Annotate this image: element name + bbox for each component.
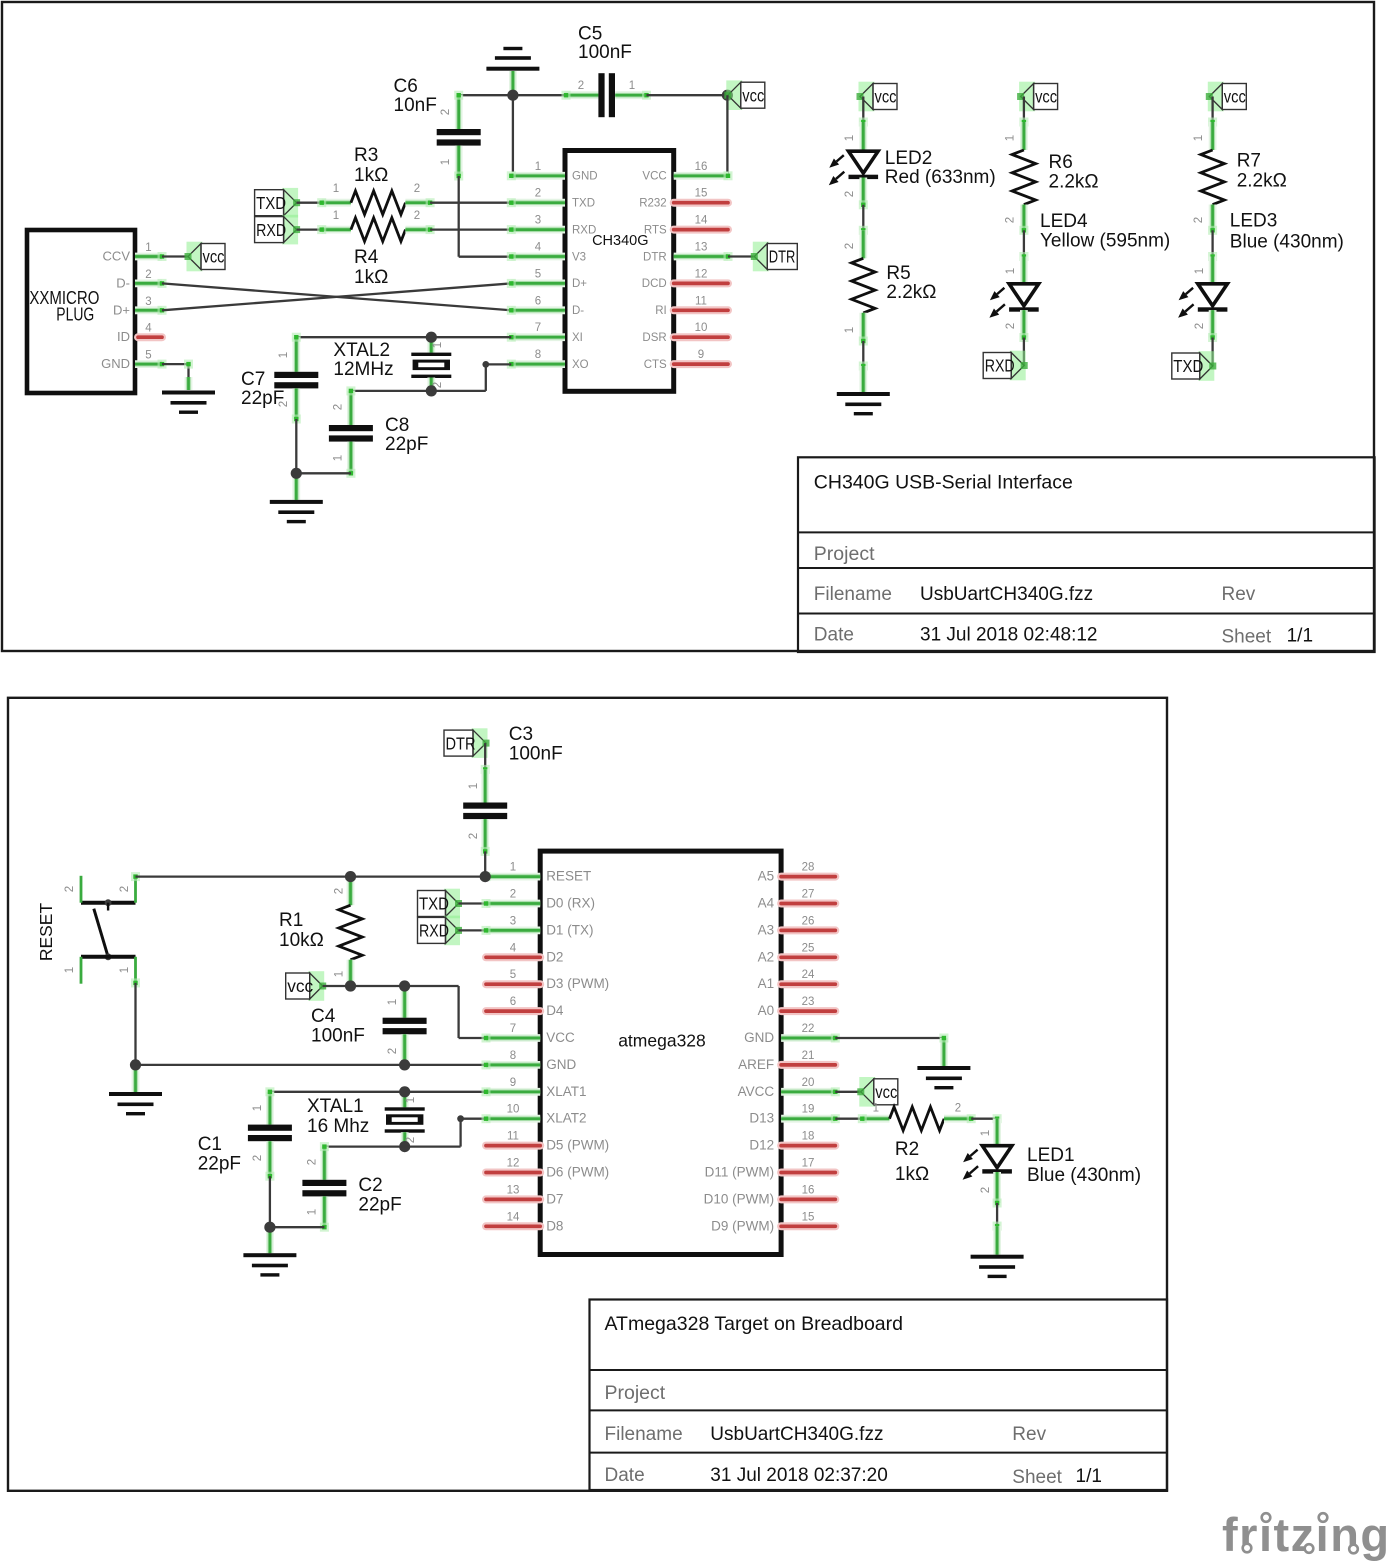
pin 8 GND of U2 — [486, 1061, 540, 1069]
svg-text:D+: D+ — [113, 302, 130, 317]
svg-text:2: 2 — [252, 1155, 264, 1161]
svg-text:Filename: Filename — [814, 584, 892, 605]
pin 5 D+ of U1 — [511, 279, 565, 287]
wire R7 to LED3 — [1211, 230, 1213, 256]
svg-text:A5: A5 — [758, 869, 775, 884]
VCC flag (sheet2, near R1) — [308, 971, 324, 1001]
pin 3 D+ of J1 — [135, 306, 162, 314]
svg-text:DSR: DSR — [642, 332, 666, 344]
pin 1 GND of U1 — [511, 172, 565, 180]
svg-text:vcc: vcc — [287, 976, 313, 996]
pin 27 A4 of U2 (unconnected) — [781, 900, 835, 908]
svg-text:1: 1 — [1005, 135, 1017, 141]
pin 17 D11 (PWM) of U2 (unconnected) — [781, 1169, 835, 1177]
svg-text:2.2kΩ: 2.2kΩ — [1237, 171, 1287, 192]
pin 5 GND of J1 — [135, 360, 162, 368]
VCC flag at J1 CCV — [187, 242, 203, 272]
LED1 Blue — [993, 1119, 1001, 1146]
svg-text:D12: D12 — [749, 1138, 774, 1153]
svg-text:ATmega328 Target on Breadboard: ATmega328 Target on Breadboard — [605, 1313, 903, 1335]
TXD flag below LED3 — [1198, 351, 1214, 381]
svg-text:1: 1 — [510, 862, 516, 874]
pin 1 CCV of J1 — [135, 253, 162, 261]
wire LED3 to TXD flag — [1211, 338, 1213, 367]
RXD flag (sheet1) — [282, 215, 298, 245]
svg-text:D-: D- — [572, 305, 584, 317]
wire top rail to U1 GND pin — [512, 95, 514, 176]
svg-text:1: 1 — [440, 159, 452, 165]
svg-text:GND: GND — [101, 356, 130, 371]
capacitor C5 100nF — [565, 91, 599, 99]
svg-text:2: 2 — [844, 191, 856, 197]
crystal XTAL2 12MHz — [427, 337, 435, 352]
pin 14 RTS of U1 (unconnected) — [674, 226, 728, 234]
wire LED2 to R5 — [862, 205, 864, 231]
svg-text:31 Jul 2018 02:48:12: 31 Jul 2018 02:48:12 — [920, 625, 1098, 646]
svg-text:C6: C6 — [394, 76, 418, 97]
svg-text:1: 1 — [980, 1130, 992, 1136]
wire LED4 to RXD flag — [1023, 338, 1025, 366]
wire R2 to LED1 — [971, 1118, 997, 1120]
svg-text:CH340G: CH340G — [592, 233, 648, 249]
svg-text:XLAT1: XLAT1 — [546, 1084, 586, 1099]
svg-text:2: 2 — [119, 886, 131, 892]
junction switch/GND rail — [130, 1059, 141, 1070]
pin 13 D7 of U2 (unconnected) — [486, 1195, 540, 1203]
svg-text:TXD: TXD — [572, 198, 595, 210]
svg-text:1: 1 — [333, 183, 339, 195]
svg-text:D2: D2 — [546, 949, 563, 964]
GND rail wire — [136, 1064, 487, 1066]
svg-text:2: 2 — [1005, 217, 1017, 223]
wire R3 to U1 TXD — [430, 202, 511, 204]
svg-text:100nF: 100nF — [509, 744, 563, 765]
TXD flag (sheet1) — [282, 188, 298, 218]
svg-text:2.2kΩ: 2.2kΩ — [886, 282, 936, 303]
svg-text:RI: RI — [655, 305, 667, 317]
junction XTAL2 pin2 — [426, 385, 437, 396]
junction at top ground — [507, 90, 518, 101]
svg-text:1: 1 — [307, 1209, 319, 1215]
VCC flag above R7 — [1208, 82, 1224, 112]
svg-text:AREF: AREF — [738, 1057, 774, 1072]
svg-text:9: 9 — [698, 349, 704, 361]
svg-text:2: 2 — [955, 1103, 961, 1115]
svg-text:12: 12 — [695, 268, 708, 280]
wire VCC to R6 — [1023, 97, 1025, 123]
svg-text:Sheet: Sheet — [1012, 1467, 1062, 1488]
svg-text:28: 28 — [802, 862, 815, 874]
svg-text:1: 1 — [844, 135, 856, 141]
svg-text:8: 8 — [510, 1050, 516, 1062]
wire U1 DTR to DTR flag — [728, 255, 754, 257]
pin 28 A5 of U2 (unconnected) — [781, 873, 835, 881]
wire R4 to U1 RXD — [430, 228, 511, 230]
svg-text:R2: R2 — [895, 1139, 919, 1160]
junction C1/C2 ground — [264, 1222, 275, 1233]
svg-text:V3: V3 — [572, 251, 586, 263]
pin 4 V3 of U1 — [511, 253, 565, 261]
svg-text:2: 2 — [307, 1159, 319, 1165]
svg-text:RXD: RXD — [419, 921, 449, 941]
svg-text:XLAT2: XLAT2 — [546, 1111, 586, 1126]
svg-text:3: 3 — [145, 296, 151, 308]
svg-text:A0: A0 — [758, 1003, 775, 1018]
svg-text:Date: Date — [814, 625, 854, 646]
svg-text:2.2kΩ: 2.2kΩ — [1049, 172, 1099, 193]
svg-text:Rev: Rev — [1222, 584, 1256, 605]
svg-text:22: 22 — [802, 1023, 815, 1035]
wire VCC to LED2 — [862, 97, 864, 123]
svg-text:2: 2 — [1194, 323, 1206, 329]
svg-text:4: 4 — [145, 323, 152, 335]
svg-text:Blue (430nm): Blue (430nm) — [1230, 232, 1344, 253]
svg-text:5: 5 — [510, 969, 516, 981]
svg-text:16: 16 — [695, 161, 708, 173]
svg-text:1: 1 — [252, 1105, 264, 1111]
svg-text:13: 13 — [507, 1184, 520, 1196]
svg-text:C2: C2 — [358, 1175, 382, 1196]
pin 6 D4 of U2 (unconnected) — [486, 1007, 540, 1015]
resistor R4 1k — [322, 226, 351, 234]
pin 10 XLAT2 of U2 — [486, 1115, 540, 1123]
wire TXD flag to atmega D0 — [459, 902, 487, 904]
svg-text:XTAL1: XTAL1 — [307, 1096, 364, 1117]
wire U2 GND pin22 to ground — [835, 1037, 944, 1039]
svg-text:DTR: DTR — [769, 247, 796, 267]
capacitor C3 100nF — [481, 769, 489, 802]
svg-text:LED2: LED2 — [885, 148, 933, 169]
svg-text:2: 2 — [510, 889, 516, 901]
svg-text:A3: A3 — [758, 922, 775, 937]
wire R6 to LED4 — [1023, 230, 1025, 256]
junction C4 bottom / GND rail — [399, 1059, 410, 1070]
wire C1 to ground junction — [269, 1176, 271, 1227]
pin 23 A0 of U2 (unconnected) — [781, 1007, 835, 1015]
pin 4 ID of J1 (unconnected) — [138, 333, 162, 341]
wire switch to GND rail — [134, 983, 136, 1065]
svg-text:22pF: 22pF — [241, 388, 284, 409]
wire VCC to R7 — [1211, 97, 1213, 123]
svg-text:C7: C7 — [241, 369, 265, 390]
svg-text:21: 21 — [802, 1050, 815, 1062]
pin 9 CTS of U1 (unconnected) — [674, 360, 728, 368]
bottom contact of S1 — [81, 955, 136, 959]
svg-text:D4: D4 — [546, 1003, 564, 1018]
svg-text:7: 7 — [535, 322, 541, 334]
pin 2b of S1 — [134, 877, 137, 903]
svg-text:1: 1 — [387, 999, 399, 1005]
DTR flag (sheet2) — [472, 728, 488, 758]
wire XI net — [296, 336, 511, 338]
pin 16 VCC of U1 — [674, 172, 728, 180]
pin 21 AREF of U2 (unconnected) — [781, 1061, 835, 1069]
svg-text:D-: D- — [116, 275, 130, 290]
svg-text:2: 2 — [414, 183, 420, 195]
svg-text:XI: XI — [572, 332, 583, 344]
wire R5 to ground — [862, 341, 864, 366]
sheet 2 frame — [8, 698, 1167, 1491]
junction XTAL1 pin1 — [399, 1086, 410, 1097]
svg-text:A1: A1 — [758, 976, 775, 991]
svg-text:Date: Date — [605, 1465, 645, 1486]
svg-text:26: 26 — [802, 915, 815, 927]
svg-text:1/1: 1/1 — [1076, 1466, 1102, 1487]
svg-text:23: 23 — [802, 996, 815, 1008]
wire J1 GND to ground — [162, 363, 189, 365]
svg-text:LED1: LED1 — [1027, 1145, 1075, 1166]
wire C6 to U1 V3 pin4 — [458, 176, 460, 257]
svg-text:1: 1 — [334, 971, 346, 977]
svg-text:15: 15 — [695, 188, 708, 200]
wire RXD flag to R4 — [297, 228, 322, 230]
junction C7/C8 ground — [291, 468, 302, 479]
svg-text:D0 (RX): D0 (RX) — [546, 896, 595, 911]
svg-text:6: 6 — [510, 996, 516, 1008]
pin 7 XI of U1 — [511, 333, 565, 341]
pin 1b of S1 — [134, 957, 137, 983]
svg-text:14: 14 — [695, 215, 708, 227]
wire LED1 to ground — [996, 1203, 998, 1226]
capacitor C1 22pF — [266, 1092, 274, 1125]
pin 14 D8 of U2 (unconnected) — [486, 1222, 540, 1230]
svg-text:Filename: Filename — [605, 1424, 683, 1445]
svg-text:C8: C8 — [385, 415, 409, 436]
svg-text:GND: GND — [572, 171, 598, 183]
DTR flag (sheet1) — [753, 242, 769, 272]
junction R1 top — [345, 871, 356, 882]
wire C7 to ground junction — [295, 419, 297, 473]
svg-text:1: 1 — [432, 342, 444, 348]
svg-text:D3 (PWM): D3 (PWM) — [546, 976, 609, 991]
RXD flag below LED4 — [1010, 351, 1026, 381]
svg-text:R232: R232 — [639, 198, 667, 210]
ground symbol below switch — [132, 1065, 140, 1092]
svg-text:1: 1 — [535, 161, 541, 173]
svg-text:RXD: RXD — [572, 224, 596, 236]
wire XTAL1 pin2 to corner to XLAT2 — [405, 1145, 461, 1147]
svg-text:1: 1 — [333, 455, 345, 461]
svg-text:XO: XO — [572, 359, 589, 371]
svg-text:16: 16 — [802, 1184, 815, 1196]
svg-text:D7: D7 — [546, 1191, 563, 1206]
svg-text:Red (633nm): Red (633nm) — [885, 167, 996, 188]
svg-text:Project: Project — [605, 1382, 666, 1404]
svg-text:19: 19 — [802, 1104, 815, 1116]
svg-text:2: 2 — [468, 833, 480, 839]
svg-text:17: 17 — [802, 1158, 815, 1170]
ground symbol below C7 — [292, 473, 300, 500]
junction C4 top — [399, 980, 410, 991]
svg-text:2: 2 — [414, 210, 420, 222]
svg-text:1: 1 — [145, 242, 151, 254]
svg-text:vcc: vcc — [875, 1082, 897, 1102]
sheet 1 frame — [2, 2, 1374, 651]
LED2 Red — [859, 122, 867, 151]
svg-text:1: 1 — [333, 210, 339, 222]
svg-text:9: 9 — [510, 1077, 516, 1089]
svg-text:TXD: TXD — [1173, 356, 1203, 376]
svg-text:1kΩ: 1kΩ — [895, 1164, 929, 1185]
svg-text:6: 6 — [535, 295, 541, 307]
svg-text:A2: A2 — [758, 949, 775, 964]
pin 3 RXD of U1 — [511, 226, 565, 234]
wire C8 to ground junction — [296, 472, 351, 474]
pin 1 RESET of U2 — [486, 873, 540, 881]
svg-text:2: 2 — [333, 404, 345, 410]
resistor R3 1k — [322, 199, 351, 207]
svg-text:15: 15 — [802, 1211, 815, 1223]
VCC flag above R6 — [1019, 82, 1035, 112]
pin 10 DSR of U1 (unconnected) — [674, 333, 728, 341]
wire C2 to ground junction — [270, 1226, 325, 1228]
title block sheet 2 — [590, 1300, 1168, 1491]
wire CCV to VCC flag — [162, 255, 188, 257]
svg-text:R7: R7 — [1237, 151, 1261, 172]
svg-text:vcc: vcc — [1035, 87, 1057, 107]
pin 25 A2 of U2 (unconnected) — [781, 953, 835, 961]
svg-text:vcc: vcc — [203, 247, 225, 267]
svg-text:5: 5 — [145, 350, 151, 362]
svg-text:1: 1 — [629, 80, 635, 92]
pin 11 RI of U1 (unconnected) — [674, 306, 728, 314]
IC U1 CH340G — [565, 151, 674, 392]
svg-text:1: 1 — [278, 352, 290, 358]
svg-text:RXD: RXD — [985, 356, 1015, 376]
svg-text:3: 3 — [535, 215, 541, 227]
svg-text:D10 (PWM): D10 (PWM) — [704, 1191, 775, 1206]
wire U2 D13 to R2 — [835, 1118, 862, 1120]
junction XTAL1 pin2 — [399, 1141, 410, 1152]
resistor R1 10k — [347, 877, 355, 906]
pin 4 D2 of U2 (unconnected) — [486, 953, 540, 961]
svg-text:DTR: DTR — [446, 733, 476, 753]
svg-text:27: 27 — [802, 889, 815, 901]
svg-text:2: 2 — [387, 1048, 399, 1054]
junction R1 bottom / VCC net — [345, 980, 356, 991]
IC U2 atmega328 — [540, 851, 781, 1254]
svg-text:12: 12 — [507, 1158, 520, 1170]
svg-text:R5: R5 — [886, 263, 910, 284]
pin 8 XO of U1 — [511, 360, 565, 368]
svg-text:11: 11 — [507, 1131, 519, 1143]
svg-text:10: 10 — [507, 1104, 520, 1116]
ground symbol right of U2 — [917, 1066, 970, 1070]
pin 12 D6 (PWM) of U2 (unconnected) — [486, 1169, 540, 1177]
svg-text:vcc: vcc — [1224, 87, 1246, 107]
pin 12 DCD of U1 (unconnected) — [674, 279, 728, 287]
switch lever — [105, 899, 112, 906]
svg-text:C1: C1 — [198, 1134, 222, 1155]
svg-text:1: 1 — [119, 967, 131, 973]
wire XTAL2 pin2 to C8 — [351, 390, 431, 392]
svg-text:100nF: 100nF — [578, 42, 632, 63]
resistor R7 2.2k — [1209, 122, 1217, 150]
svg-text:2: 2 — [578, 80, 584, 92]
pin 9 XLAT1 of U2 — [486, 1088, 540, 1096]
svg-text:CTS: CTS — [644, 359, 667, 371]
svg-text:DCD: DCD — [642, 278, 667, 290]
svg-text:PLUG: PLUG — [56, 303, 94, 324]
svg-text:100nF: 100nF — [311, 1026, 365, 1047]
svg-text:1kΩ: 1kΩ — [354, 165, 388, 186]
svg-text:atmega328: atmega328 — [618, 1031, 706, 1051]
svg-text:2: 2 — [535, 188, 541, 200]
svg-text:vcc: vcc — [742, 85, 764, 105]
svg-text:TXD: TXD — [419, 894, 449, 914]
svg-text:DTR: DTR — [643, 251, 667, 263]
title block sheet 1 — [798, 457, 1375, 652]
wire D+ (J1 pin3 to U1 D+) — [162, 283, 511, 310]
pin 20 AVCC of U2 — [781, 1088, 835, 1096]
svg-text:VCC: VCC — [546, 1030, 575, 1045]
svg-text:1: 1 — [1193, 135, 1205, 141]
svg-text:TXD: TXD — [256, 193, 286, 213]
wire VCC down to U1 VCC pin16 — [726, 95, 728, 176]
svg-text:Blue (430nm): Blue (430nm) — [1027, 1165, 1141, 1186]
pin 6 D- of U1 — [511, 306, 565, 314]
svg-text:LED4: LED4 — [1040, 211, 1088, 232]
ground symbol below LED1 — [971, 1255, 1024, 1259]
svg-text:22pF: 22pF — [358, 1195, 401, 1216]
svg-text:LED3: LED3 — [1230, 211, 1278, 232]
wire XO net: XTAL2 to corner — [431, 390, 486, 392]
capacitor C8 22pF — [347, 391, 355, 425]
pin 11 D5 (PWM) of U2 (unconnected) — [486, 1142, 540, 1150]
capacitor C4 100nF — [401, 986, 409, 1018]
pin 7 VCC of U2 — [486, 1034, 540, 1042]
svg-text:2: 2 — [440, 109, 452, 115]
wire DTR to C3 — [484, 743, 486, 769]
svg-text:C3: C3 — [509, 724, 533, 745]
pin 15 R232 of U1 (unconnected) — [674, 199, 728, 207]
pin 15 D9 (PWM) of U2 (unconnected) — [781, 1222, 835, 1230]
svg-text:22pF: 22pF — [198, 1154, 241, 1175]
svg-text:2: 2 — [334, 888, 346, 894]
svg-text:ID: ID — [117, 329, 130, 344]
svg-text:Project: Project — [814, 543, 875, 565]
svg-text:1: 1 — [468, 783, 480, 789]
svg-text:1/1: 1/1 — [1287, 626, 1313, 647]
TXD flag (sheet2) — [444, 889, 460, 919]
pin 2 D0 (RX) of U2 — [486, 900, 540, 908]
wire top rail (GND net) — [459, 94, 566, 96]
svg-text:vcc: vcc — [875, 87, 897, 107]
capacitor C2 22pF — [320, 1147, 328, 1180]
pin 26 A3 of U2 (unconnected) — [781, 926, 835, 934]
svg-text:7: 7 — [510, 1023, 516, 1035]
svg-text:D+: D+ — [572, 278, 587, 290]
svg-text:1: 1 — [1194, 268, 1206, 274]
svg-text:XTAL2: XTAL2 — [333, 340, 390, 361]
svg-text:1: 1 — [873, 1103, 879, 1115]
svg-text:Yellow (595nm): Yellow (595nm) — [1040, 230, 1170, 251]
svg-text:3: 3 — [510, 915, 516, 927]
ground symbol below R5 — [837, 392, 890, 396]
svg-text:1: 1 — [844, 327, 856, 333]
svg-text:10kΩ: 10kΩ — [279, 930, 324, 951]
wire RESET net (switch to R1 to atmega pin1) — [136, 875, 486, 877]
svg-text:14: 14 — [507, 1211, 520, 1223]
pin 3 D1 (TX) of U2 — [486, 927, 540, 935]
svg-text:R1: R1 — [279, 910, 303, 931]
svg-text:31 Jul 2018 02:37:20: 31 Jul 2018 02:37:20 — [710, 1465, 888, 1486]
svg-text:22pF: 22pF — [385, 434, 428, 455]
crystal XTAL1 16MHz — [401, 1092, 409, 1108]
svg-text:D5 (PWM): D5 (PWM) — [546, 1138, 609, 1153]
svg-text:RESET: RESET — [546, 869, 591, 884]
svg-text:R3: R3 — [354, 145, 378, 166]
